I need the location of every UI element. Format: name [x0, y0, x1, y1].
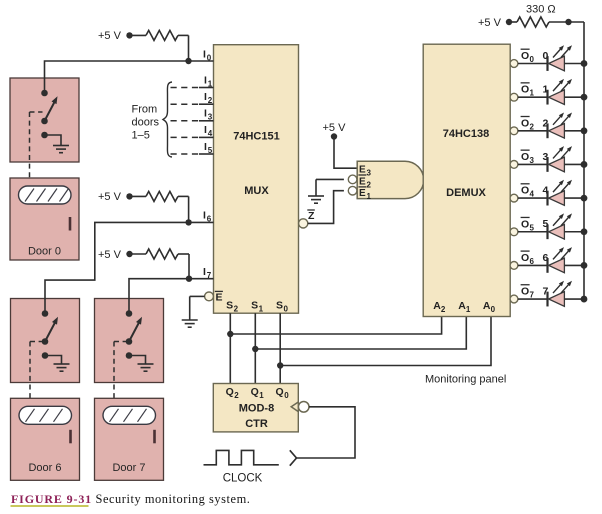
pin label Q2	[226, 386, 240, 400]
figure caption	[11, 492, 251, 507]
LED D7	[548, 281, 573, 307]
pull-up resistor R2 (+5V to I6)	[98, 191, 189, 222]
wire: S2 node to DEMUX A2	[230, 317, 441, 335]
output bubble O2-bar on DEMUX	[510, 127, 518, 135]
dashed mechanical linkage Door 7 switch	[114, 342, 127, 399]
LED number label 1	[543, 84, 549, 96]
pull-up resistor R1 (+5V to I0)	[98, 30, 189, 42]
LED number label 2	[543, 117, 549, 129]
svg-text:+5 V: +5 V	[478, 17, 502, 29]
svg-text:O: O	[521, 117, 529, 129]
pin label I4	[204, 124, 213, 138]
pin label O3-bar	[521, 150, 535, 165]
MUX enable pin E-bar with bubble	[205, 291, 223, 303]
door handle Door 7	[153, 430, 156, 444]
resistor 330 ohm	[478, 4, 584, 30]
svg-text:O: O	[521, 286, 529, 298]
output bubble O4-bar on DEMUX	[510, 194, 518, 202]
svg-text:6: 6	[530, 257, 535, 266]
demultiplexer U2 74HC138	[423, 44, 510, 316]
pin label I5	[204, 141, 213, 155]
svg-text:0: 0	[284, 305, 289, 314]
wire: O3-bar to LED 3	[518, 163, 548, 165]
pin label O7-bar	[521, 285, 535, 300]
svg-text:I: I	[204, 141, 207, 153]
door sensor switch box Door 0 switch	[10, 78, 79, 162]
svg-text:Security monitoring system.: Security monitoring system.	[96, 492, 251, 506]
label CLOCK	[223, 473, 263, 485]
clock source chevron	[290, 450, 297, 465]
door window (hatched) Door 0	[19, 186, 72, 204]
switch Door 7 switch: bottom contact to ground	[126, 352, 146, 364]
label Door 0	[28, 246, 61, 258]
svg-text:Q: Q	[251, 386, 259, 398]
svg-text:Door 7: Door 7	[112, 462, 145, 474]
output bubble O7-bar on DEMUX	[510, 295, 518, 303]
LED D6	[548, 247, 573, 273]
pin label S1	[251, 300, 264, 314]
svg-text:1: 1	[466, 305, 471, 314]
enable AND gate of DEMUX	[357, 161, 424, 201]
svg-text:E: E	[359, 176, 366, 187]
wire: O5-bar to LED 5	[518, 231, 548, 233]
switch Door 7 switch: wiper arm with arrow	[126, 317, 142, 345]
switch Door 0 switch: bottom contact to ground	[41, 132, 61, 146]
label: Monitoring panel	[425, 374, 506, 386]
svg-text:I: I	[204, 108, 207, 120]
svg-text:4: 4	[530, 190, 535, 199]
LED D1	[548, 79, 573, 105]
junction on bus row 5	[581, 228, 588, 235]
wire: O4-bar to LED 4	[518, 197, 548, 199]
wire: LED 3 to supply bus	[564, 163, 584, 165]
svg-text:CTR: CTR	[245, 418, 268, 430]
svg-text:From: From	[132, 104, 158, 116]
LED anode supply bus	[583, 22, 585, 299]
bubble on gate input E2-bar	[348, 175, 357, 184]
svg-text:FIGURE 9-31: FIGURE 9-31	[11, 492, 92, 506]
door handle Door 6	[69, 430, 72, 444]
svg-text:2: 2	[367, 180, 372, 189]
wire: LED 4 to supply bus	[564, 197, 584, 199]
svg-text:5: 5	[208, 146, 213, 155]
ground symbol in switch box Door 0 switch	[53, 146, 69, 153]
svg-text:2: 2	[530, 122, 535, 131]
wire: resistor R1 to node I0	[188, 35, 190, 61]
svg-text:7: 7	[530, 291, 535, 300]
label Door 7	[112, 462, 145, 474]
svg-text:2: 2	[234, 391, 239, 400]
door window (hatched) Door 7	[103, 406, 156, 424]
brace for doors 1-5	[163, 82, 172, 157]
svg-text:+5 V: +5 V	[323, 122, 347, 134]
door window (hatched) Door 6	[19, 406, 72, 424]
wire: gate E2-bar to ground	[316, 179, 344, 196]
output bubble O1-bar on DEMUX	[510, 93, 518, 101]
svg-text:1: 1	[208, 79, 213, 88]
pin label O0-bar	[521, 49, 535, 64]
dashed wire from door 4 to I4	[171, 136, 214, 138]
door sensor switch box Door 7 switch	[95, 299, 164, 383]
pin label O1-bar	[521, 83, 535, 98]
wire: O0-bar to LED 0	[518, 63, 548, 65]
wire: Z-bar to gate E1	[308, 191, 344, 224]
wire: LED 1 to supply bus	[564, 96, 584, 98]
svg-text:0: 0	[530, 55, 535, 64]
pin label O6-bar	[521, 251, 535, 266]
pin label I3	[204, 108, 213, 122]
label Door 6	[28, 462, 61, 474]
junction on bus row 4	[581, 195, 588, 202]
output bubble O3-bar on DEMUX	[510, 161, 518, 169]
svg-text:I: I	[203, 266, 206, 278]
junction after 330 ohm	[565, 19, 571, 25]
pin label A1	[458, 300, 471, 314]
svg-text:7: 7	[207, 271, 212, 280]
LED D3	[548, 146, 573, 172]
switch Door 0 switch: top contact node	[41, 90, 48, 97]
dashed wire from door 5 to I5	[171, 153, 214, 155]
wire: S1 node to DEMUX A1	[255, 317, 466, 350]
multiplexer U1 74HC151	[214, 45, 299, 314]
pin label I6	[203, 210, 212, 224]
svg-text:O: O	[521, 50, 529, 62]
svg-text:O: O	[521, 151, 529, 163]
svg-text:MOD-8: MOD-8	[239, 403, 274, 415]
+5V supply to gate E3	[323, 122, 358, 168]
wire: E-bar to ground	[190, 296, 205, 320]
pull-up resistor R3 (+5V to I7)	[98, 249, 189, 279]
junction on S2 line	[227, 331, 233, 337]
wire: LED 5 to supply bus	[564, 231, 584, 233]
door unit box Door 0	[10, 178, 79, 260]
ground symbol in switch box Door 7 switch	[138, 364, 154, 371]
svg-text:1: 1	[367, 192, 372, 201]
svg-text:1: 1	[259, 391, 264, 400]
LED D2	[548, 113, 573, 139]
LED D0	[548, 45, 573, 71]
wire: O7-bar to LED 7	[518, 298, 548, 300]
svg-text:6: 6	[207, 215, 212, 224]
door unit box Door 7	[95, 398, 164, 480]
wire: clock source to counter	[296, 407, 355, 458]
pin label S0	[276, 300, 289, 314]
junction node I6	[185, 219, 191, 225]
switch Door 0 switch: wiper arm with arrow	[41, 96, 57, 124]
svg-text:330 Ω: 330 Ω	[526, 4, 556, 16]
pin label A0	[483, 300, 496, 314]
junction node I7	[186, 276, 192, 282]
counter U3 MOD-8 CTR	[213, 384, 298, 432]
svg-text:Monitoring panel: Monitoring panel	[425, 374, 506, 386]
pin label Q0	[276, 386, 290, 400]
clock waveform	[204, 450, 279, 464]
svg-text:MUX: MUX	[244, 185, 269, 197]
svg-text:I: I	[204, 74, 207, 86]
pin label Q1	[251, 386, 265, 400]
pin label S2	[226, 300, 239, 314]
svg-text:1–5: 1–5	[132, 130, 150, 142]
junction on bus row 0	[581, 60, 588, 67]
counter clock bubble	[298, 402, 309, 413]
ground symbol in switch box Door 6 switch	[54, 364, 70, 371]
output bubble O6-bar on DEMUX	[510, 262, 518, 270]
svg-text:2: 2	[234, 305, 239, 314]
wire: Door 0 switch to MUX I0	[45, 61, 214, 93]
svg-text:I: I	[204, 91, 207, 103]
select line S0: MUX to counter Q0	[279, 313, 281, 383]
junction on bus row 6	[581, 262, 588, 269]
svg-text:S: S	[226, 300, 233, 312]
svg-text:Door 6: Door 6	[28, 462, 61, 474]
pin label O4-bar	[521, 184, 535, 199]
wire: LED 7 to supply bus	[564, 298, 584, 300]
bubble on gate input E1-bar	[348, 186, 357, 195]
svg-text:+5 V: +5 V	[98, 249, 122, 261]
pin label I0	[203, 49, 212, 63]
LED number label 0	[543, 50, 549, 62]
svg-text:+5 V: +5 V	[98, 191, 122, 203]
svg-text:CLOCK: CLOCK	[223, 473, 263, 485]
door sensor switch box Door 6 switch	[11, 299, 80, 383]
door handle Door 0	[69, 217, 72, 231]
svg-text:doors: doors	[132, 117, 160, 129]
svg-text:74HC138: 74HC138	[443, 128, 489, 140]
LED number label 5	[543, 218, 549, 230]
switch Door 6 switch: wiper arm with arrow	[42, 317, 58, 345]
junction on bus row 7	[581, 296, 588, 303]
dashed mechanical linkage Door 0 switch	[30, 112, 43, 178]
svg-text:O: O	[521, 218, 529, 230]
wire: O1-bar to LED 1	[518, 96, 548, 98]
svg-text:I: I	[203, 49, 206, 61]
wire: LED 2 to supply bus	[564, 130, 584, 132]
svg-text:E: E	[216, 291, 223, 303]
svg-text:0: 0	[284, 391, 289, 400]
switch Door 6 switch: bottom contact to ground	[42, 352, 62, 364]
svg-text:4: 4	[208, 129, 213, 138]
svg-text:Door 0: Door 0	[28, 246, 61, 258]
svg-text:0: 0	[207, 54, 212, 63]
svg-text:Q: Q	[226, 386, 234, 398]
svg-text:2: 2	[208, 96, 213, 105]
svg-text:I: I	[204, 124, 207, 136]
wire: O2-bar to LED 2	[518, 130, 548, 132]
switch Door 6 switch: top contact node	[42, 310, 49, 317]
wire: Door 7 switch to MUX I7	[129, 279, 214, 314]
switch Door 7 switch: top contact node	[126, 310, 133, 317]
svg-text:Z: Z	[308, 210, 315, 222]
LED number label 7	[543, 286, 549, 298]
dashed wire from door 1 to I1	[171, 87, 214, 89]
select line S1: MUX to counter Q1	[254, 313, 256, 383]
wire: LED 0 to supply bus	[564, 63, 584, 65]
MUX output Z-bar with bubble	[299, 210, 315, 228]
svg-text:DEMUX: DEMUX	[446, 187, 486, 199]
junction on S0 line	[277, 362, 283, 368]
pin label I1	[204, 74, 213, 88]
wire: LED 6 to supply bus	[564, 264, 584, 266]
svg-text:I: I	[203, 210, 206, 222]
svg-text:3: 3	[530, 156, 535, 165]
svg-text:2: 2	[441, 305, 446, 314]
output bubble O5-bar on DEMUX	[510, 228, 518, 236]
counter clock input wedge	[291, 402, 298, 412]
svg-text:5: 5	[530, 223, 535, 232]
junction node I0	[185, 58, 191, 64]
LED number label 6	[543, 252, 549, 264]
dashed wire from door 3 to I3	[171, 120, 214, 122]
svg-text:1: 1	[259, 305, 264, 314]
wire: S0 node to DEMUX A0	[280, 317, 491, 366]
pin label A2	[433, 300, 446, 314]
svg-text:0: 0	[491, 305, 496, 314]
svg-text:3: 3	[367, 169, 372, 178]
ground symbol at E2-bar	[308, 196, 324, 203]
junction on bus row 3	[581, 161, 588, 168]
svg-text:Q: Q	[276, 386, 284, 398]
svg-text:E: E	[359, 188, 366, 199]
pin label I7	[203, 266, 212, 280]
dashed wire from door 2 to I2	[171, 103, 214, 105]
svg-text:E: E	[359, 165, 366, 176]
svg-text:74HC151: 74HC151	[233, 131, 279, 143]
svg-text:1: 1	[530, 89, 535, 98]
svg-text:3: 3	[208, 113, 213, 122]
svg-text:O: O	[521, 84, 529, 96]
ground symbol at E-bar	[182, 320, 198, 327]
dashed mechanical linkage Door 6 switch	[30, 342, 43, 399]
wire: O6-bar to LED 6	[518, 264, 548, 266]
door unit box Door 6	[11, 398, 80, 480]
LED D5	[548, 213, 573, 239]
junction on bus row 2	[581, 127, 588, 134]
select line S2: MUX to counter Q2	[229, 313, 231, 383]
svg-text:+5 V: +5 V	[98, 30, 122, 42]
pin label O2-bar	[521, 117, 535, 132]
svg-text:O: O	[521, 185, 529, 197]
label: From doors 1-5	[132, 104, 160, 142]
wire: Door 6 switch to MUX I6	[45, 222, 214, 313]
junction on bus row 1	[581, 94, 588, 101]
LED number label 4	[543, 185, 549, 197]
svg-text:S: S	[276, 300, 283, 312]
svg-text:O: O	[521, 252, 529, 264]
svg-text:S: S	[251, 300, 258, 312]
output bubble O0-bar on DEMUX	[510, 60, 518, 68]
LED D4	[548, 180, 573, 206]
LED number label 3	[543, 151, 549, 163]
pin label I2	[204, 91, 213, 105]
junction on S1 line	[252, 346, 258, 352]
pin label O5-bar	[521, 217, 535, 232]
